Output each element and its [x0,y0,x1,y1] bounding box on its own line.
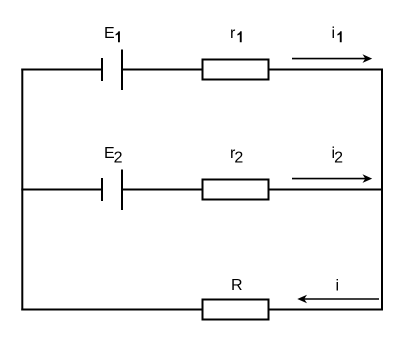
svg-text:E2: E2 [104,145,123,167]
wire: left vertical bus [21,69,23,311]
wire: top rail, left bus to E1 negative plate [21,69,102,71]
svg-text:i2: i2 [332,145,344,167]
wire: r1 to right bus [270,69,384,71]
wire: r2 to right bus [270,189,384,191]
wire: bottom rail, left bus to R [21,309,202,311]
wire: R to right bus [270,309,384,311]
wire: E2 positive plate to r2 [122,189,202,191]
battery E2 [102,170,122,211]
resistor r2 [203,180,269,200]
svg-text:r: r [230,25,236,42]
wire: middle rail, left bus to E2 negative plate [21,189,102,191]
svg-text:R: R [231,277,243,294]
current arrow i (return current, points left) [297,295,379,304]
battery E1 [102,50,122,91]
current arrow i2 [292,174,372,183]
svg-text:i: i [336,277,340,294]
current arrow i1 [292,54,372,63]
svg-text:r2: r2 [230,145,243,167]
resistor r1 [203,60,269,80]
svg-text:i: i [332,25,336,42]
svg-text:E: E [104,25,115,42]
resistor R [203,300,269,320]
wire: right vertical bus [381,69,383,311]
wire: E1 positive plate to r1 [122,69,202,71]
